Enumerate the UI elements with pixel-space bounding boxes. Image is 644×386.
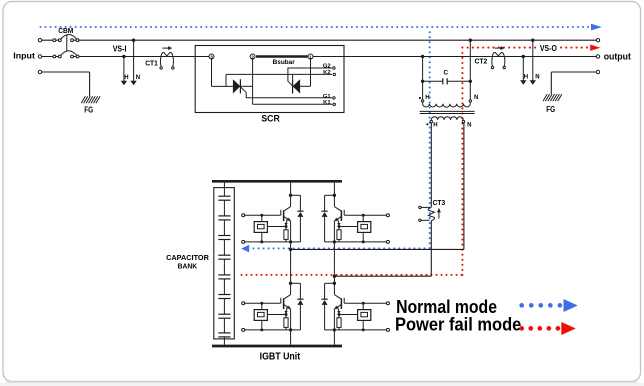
transformer primary N terminal xyxy=(469,100,471,102)
wire IGBT Q2 diode branch bottom xyxy=(324,217,326,242)
terminal K2 xyxy=(323,70,335,76)
wire K1 line xyxy=(253,103,333,105)
transformer T1 primary winding xyxy=(423,102,471,107)
label FG right xyxy=(546,105,555,114)
transformer secondary H terminal xyxy=(430,120,432,122)
terminal K1 xyxy=(323,100,335,106)
svg-text:IGBT Unit: IGBT Unit xyxy=(260,351,301,362)
label output xyxy=(604,52,631,62)
wire IGBT Q1 gate xyxy=(245,214,281,216)
wire normal-mode blue dotted top run xyxy=(39,26,589,28)
node L1 N-tap xyxy=(132,39,135,42)
wire power-fail red dotted top run xyxy=(461,47,588,49)
node IGBT Q1 emitter sense xyxy=(285,225,288,228)
node IGBT Q3 gate tap xyxy=(260,302,263,305)
wire IGBT Q4 driver to emitter sense xyxy=(339,314,358,316)
wire IGBT Q2 diode branch top xyxy=(325,195,335,211)
label H secondary xyxy=(433,122,437,128)
wire primary H drop xyxy=(422,57,424,100)
thyristor T1 cathode bar xyxy=(239,79,241,93)
input terminal L1 xyxy=(38,39,41,42)
transistor IGBT Q1 emitter diagonal xyxy=(284,216,291,221)
thyristor T2 gate lead xyxy=(288,68,332,86)
current transformer CT1 arrow xyxy=(162,46,172,50)
wire IGBT Q3 diode branch bottom xyxy=(299,305,301,330)
terminal IGBT Q4 gate xyxy=(386,302,389,305)
transistor IGBT Q2 emitter diagonal xyxy=(335,216,342,221)
wire IGBT Q4 leg collector xyxy=(333,271,335,295)
terminal IGBT Q3 emitter xyxy=(242,328,245,331)
label H out xyxy=(524,74,528,80)
legend normal-mode dots xyxy=(519,303,562,308)
label Power fail mode xyxy=(395,315,521,335)
label CBM xyxy=(58,26,73,35)
arrow H measurement VS-I xyxy=(121,57,127,86)
transistor IGBT Q3 gate bar xyxy=(280,298,282,303)
thyristor T1 triangle xyxy=(233,79,241,93)
wire IGBT Q3 gate xyxy=(245,302,281,304)
arrow N measurement out xyxy=(530,40,536,85)
transistor IGBT Q4 kelvin emitter arrow xyxy=(337,307,340,315)
transistor IGBT Q2 kelvin emitter arrow xyxy=(337,219,340,227)
svg-text:CT1: CT1 xyxy=(145,58,158,67)
node IGBT Q1 emitter wire taps xyxy=(260,240,292,243)
arrow normal-mode left into capacitor bank xyxy=(241,245,249,253)
svg-text:output: output xyxy=(604,52,631,62)
wire IGBT Q4 resistor leads xyxy=(338,315,340,330)
wire leg1 bottom xyxy=(290,330,292,345)
terminal IGBT Q2 gate xyxy=(386,214,389,217)
svg-text:N: N xyxy=(535,74,539,80)
transistor IGBT Q4 emitter diagonal xyxy=(335,304,342,309)
node L2 H-tap xyxy=(122,55,125,58)
transformer primary polarity dot xyxy=(419,97,421,99)
wire leg1 AC output to secondary N xyxy=(291,123,464,250)
driver box IGBT Q4 xyxy=(358,310,371,321)
driver box IGBT Q3 xyxy=(254,310,267,321)
svg-text:K1: K1 xyxy=(323,100,331,106)
wire L2 SCR to output xyxy=(313,56,596,58)
wire anode to K2 riser xyxy=(225,74,227,86)
label CT3 xyxy=(433,198,446,207)
label N VS-I xyxy=(136,75,140,81)
svg-text:3: 3 xyxy=(210,55,213,60)
transistor IGBT Q2 body bar xyxy=(340,210,342,221)
svg-text:N: N xyxy=(474,95,478,101)
diode IGBT Q3 triangle xyxy=(297,300,303,305)
transistor IGBT Q4 collector diagonal xyxy=(334,295,341,300)
transistor IGBT Q2 collector diagonal xyxy=(334,207,341,212)
resistor IGBT Q4 emitter xyxy=(337,318,341,328)
label VS-O xyxy=(540,43,557,53)
input terminal L2 xyxy=(38,55,41,58)
current transformer CT2 terminals xyxy=(491,66,505,68)
driver box IGBT Q1 xyxy=(254,222,267,233)
node L2 primary-H tap xyxy=(421,55,424,58)
SCR module box xyxy=(195,46,344,113)
terminal IGBT Q4 emitter xyxy=(386,328,389,331)
wire IGBT Q3 driver bottom drop xyxy=(261,320,263,330)
current transformer CT1 winding xyxy=(161,52,173,56)
wire terminal2 riser xyxy=(252,59,254,104)
breaker CBM pole 2 arc xyxy=(60,51,78,57)
svg-text:Input: Input xyxy=(13,51,35,61)
wire T1 cathode to terminal2 xyxy=(240,85,252,87)
bus bar positive xyxy=(212,180,342,183)
transformer secondary polarity dot xyxy=(426,123,428,125)
node C left xyxy=(421,80,424,83)
transistor IGBT Q1 collector diagonal xyxy=(284,207,291,212)
svg-text:H: H xyxy=(524,74,528,80)
wire L1 input to breaker xyxy=(42,39,59,41)
wire normal-mode blue dotted bottom run xyxy=(252,247,430,249)
wire power-fail red dotted bottom run xyxy=(240,274,462,276)
svg-text:K2: K2 xyxy=(323,70,330,76)
label FG left xyxy=(84,105,93,114)
ground FG left xyxy=(81,96,100,103)
driver box IGBT Q2 xyxy=(358,222,371,233)
wire capacitor bank top feed xyxy=(223,183,225,197)
current transformer CT2 winding xyxy=(492,52,504,56)
label CT1 xyxy=(145,58,158,67)
terminal G2 xyxy=(323,64,335,70)
svg-text:H: H xyxy=(124,75,128,81)
svg-text:BANK: BANK xyxy=(178,262,198,271)
capacitor C plates xyxy=(443,78,447,84)
wire IGBT Q4 emitter return xyxy=(325,329,387,331)
node IGBT Q2 gate tap xyxy=(362,214,365,217)
legend power-fail arrow xyxy=(561,322,576,335)
arrow H measurement out xyxy=(520,57,526,85)
label Input xyxy=(13,51,35,61)
thyristor T2 triangle xyxy=(293,79,301,93)
wire IGBT Q3 resistor leads xyxy=(285,315,287,330)
terminal IGBT Q2 emitter xyxy=(386,240,389,243)
terminal 2 xyxy=(250,54,255,60)
capacitor bank series capacitors xyxy=(218,196,230,337)
svg-text:FG: FG xyxy=(84,105,93,114)
wire primary N drop xyxy=(469,40,471,100)
wire IGBT Q2 gate xyxy=(344,214,386,216)
diode IGBT Q1 cathode bar xyxy=(297,210,303,212)
busbar Bsubar link xyxy=(256,55,308,58)
svg-text:VS-I: VS-I xyxy=(113,43,127,53)
label VS-I xyxy=(113,43,127,53)
ground FG right xyxy=(543,94,562,101)
breaker CBM pole 2 contacts xyxy=(53,55,79,58)
svg-text:G1: G1 xyxy=(323,94,332,100)
transformer core xyxy=(420,111,475,113)
terminal 1 xyxy=(308,54,313,60)
label H primary xyxy=(425,95,429,101)
wire T2 anode to terminal1 xyxy=(300,59,310,86)
wire leg2 bottom xyxy=(333,330,335,345)
thyristor T2 cathode bar xyxy=(292,79,294,93)
wire IGBT Q3 diode branch top xyxy=(291,283,301,299)
label Bsubar xyxy=(273,59,296,66)
wire IGBT Q1 driver bottom drop xyxy=(261,232,263,242)
node IGBT Q1 gate tap xyxy=(260,214,263,217)
svg-text:CT2: CT2 xyxy=(475,57,488,66)
node IGBT Q3 collector split xyxy=(289,282,292,285)
label C xyxy=(443,69,448,76)
wire IGBT Q3 driver to emitter sense xyxy=(267,314,286,316)
svg-text:2: 2 xyxy=(251,55,254,60)
bus bar negative xyxy=(212,345,342,348)
wire terminal3 riser xyxy=(211,59,213,86)
current transformer CT1 terminals xyxy=(160,67,174,69)
wire FG output lead xyxy=(551,72,596,94)
svg-text:CT3: CT3 xyxy=(433,198,446,207)
transformer primary H terminal xyxy=(421,100,423,102)
input terminal FG xyxy=(38,70,41,73)
node IGBT Q3 emitter wire taps xyxy=(260,328,292,331)
label CAPACITOR BANK xyxy=(166,253,210,270)
diode IGBT Q1 triangle xyxy=(297,212,303,217)
svg-text:SCR: SCR xyxy=(261,114,280,125)
wire power-fail red dotted vertical xyxy=(461,52,463,276)
wire IGBT Q3 driver drop xyxy=(261,303,263,309)
resistor IGBT Q3 emitter xyxy=(284,318,288,328)
node L1 N-tap out xyxy=(531,39,534,42)
terminal IGBT Q3 gate xyxy=(242,302,245,305)
svg-text:N: N xyxy=(136,75,140,81)
wire capacitor bank bottom feed xyxy=(223,337,225,345)
diode IGBT Q2 triangle xyxy=(322,212,328,217)
node IGBT Q2 collector split xyxy=(333,194,336,197)
current transformer CT3 terminals xyxy=(419,206,421,221)
node IGBT Q2 emitter wire taps xyxy=(333,240,365,243)
current transformer CT3 leads xyxy=(421,207,429,220)
wire leg2 mid xyxy=(333,242,335,271)
wire IGBT Q1 driver drop xyxy=(261,215,263,221)
svg-text:FG: FG xyxy=(546,105,555,114)
label H VS-I xyxy=(124,75,128,81)
wire IGBT Q2 resistor leads xyxy=(338,227,340,242)
wire IGBT Q1 leg collector xyxy=(290,183,292,207)
transformer T1 secondary winding xyxy=(431,117,463,121)
transistor IGBT Q3 collector diagonal xyxy=(284,295,291,300)
legend power-fail dots xyxy=(519,326,560,331)
current transformer CT3 arrow xyxy=(437,208,441,219)
diode IGBT Q2 cathode bar xyxy=(321,210,327,212)
node leg1 AC tap xyxy=(289,248,292,251)
transistor IGBT Q2 gate bar xyxy=(343,210,345,215)
svg-text:CBM: CBM xyxy=(58,26,73,35)
wire IGBT Q4 emitter leg xyxy=(333,309,335,330)
wire thyristor1 anode xyxy=(212,85,233,87)
node L2 H-tap out xyxy=(522,55,525,58)
wire IGBT Q3 emitter return xyxy=(245,329,301,331)
wire IGBT Q2 leg collector xyxy=(333,183,335,207)
breaker CBM pole 1 arc xyxy=(60,35,78,41)
svg-text:1: 1 xyxy=(309,55,312,60)
output terminal L1 xyxy=(596,39,599,42)
arrow N measurement VS-I xyxy=(130,40,136,85)
node IGBT Q1 collector split xyxy=(289,194,292,197)
wire IGBT Q1 diode branch top xyxy=(291,195,301,211)
wire K2 line xyxy=(226,73,332,75)
capacitor bank enclosure xyxy=(214,188,235,339)
label SCR xyxy=(261,114,280,125)
svg-text:Bsubar: Bsubar xyxy=(273,59,296,66)
node IGBT Q4 gate tap xyxy=(362,302,365,305)
wire IGBT Q1 driver to emitter sense xyxy=(267,226,286,228)
arrow power-fail right xyxy=(590,45,600,51)
wire IGBT Q3 emitter leg xyxy=(290,309,292,330)
wire IGBT Q3 leg collector xyxy=(290,271,292,295)
breaker CBM pole 1 contacts xyxy=(53,39,79,42)
transistor IGBT Q4 body bar xyxy=(340,298,342,309)
transistor IGBT Q1 gate bar xyxy=(280,210,282,215)
wire L2 input to breaker xyxy=(42,56,59,58)
current transformer CT2 leads xyxy=(492,57,505,67)
node IGBT Q2 emitter sense xyxy=(338,225,341,228)
svg-text:VS-O: VS-O xyxy=(540,43,557,53)
terminal G1 xyxy=(323,94,335,100)
transistor IGBT Q3 kelvin emitter arrow xyxy=(285,307,288,315)
transistor IGBT Q3 emitter diagonal xyxy=(284,304,291,309)
resistor IGBT Q1 emitter xyxy=(284,230,288,240)
wire CT3 to leg2 AC xyxy=(334,221,431,277)
svg-text:H: H xyxy=(433,122,437,128)
wire IGBT Q4 diode branch top xyxy=(325,283,335,299)
transistor IGBT Q4 gate bar xyxy=(343,298,345,303)
svg-text:N: N xyxy=(467,122,471,128)
arrow normal-mode right xyxy=(591,24,602,31)
output terminal FG xyxy=(596,70,599,73)
label N out xyxy=(535,74,539,80)
wire IGBT Q1 resistor leads xyxy=(285,227,287,242)
wire IGBT Q4 gate xyxy=(344,302,386,304)
label Normal mode xyxy=(396,297,497,317)
current transformer CT3 winding xyxy=(428,207,434,220)
transistor IGBT Q1 body bar xyxy=(283,210,285,221)
svg-text:H: H xyxy=(425,95,429,101)
thyristor T1 gate lead xyxy=(240,87,332,98)
output terminal L2 xyxy=(596,55,599,58)
legend normal-mode arrow xyxy=(564,299,578,312)
resistor IGBT Q2 emitter xyxy=(337,230,341,240)
wire IGBT Q2 emitter return xyxy=(325,241,387,243)
wire IGBT Q2 driver to emitter sense xyxy=(339,226,358,228)
label CT2 xyxy=(475,57,488,66)
node IGBT Q4 collector split xyxy=(333,282,336,285)
wire IGBT Q1 emitter leg xyxy=(290,221,292,242)
label VS-O backing xyxy=(538,44,559,52)
label N primary xyxy=(474,95,478,101)
terminal IGBT Q1 emitter xyxy=(242,240,245,243)
node C right xyxy=(469,80,472,83)
diode IGBT Q3 cathode bar xyxy=(297,298,303,300)
label IGBT Unit xyxy=(260,351,301,362)
wire IGBT Q4 diode branch bottom xyxy=(324,305,326,330)
svg-text:G2: G2 xyxy=(323,64,331,70)
terminal IGBT Q1 gate xyxy=(242,214,245,217)
svg-text:C: C xyxy=(443,69,448,76)
current transformer CT2 arrow xyxy=(495,46,505,50)
wire L1 breaker to end xyxy=(73,39,596,41)
node IGBT Q4 emitter sense xyxy=(338,313,341,316)
wire IGBT Q2 driver drop xyxy=(362,215,364,221)
node IGBT Q3 emitter sense xyxy=(285,313,288,316)
wire FG input lead xyxy=(42,72,90,96)
wire L2 breaker to SCR xyxy=(73,56,209,58)
wire normal-mode blue dotted vertical drop xyxy=(429,31,431,249)
svg-text:Power fail mode: Power fail mode xyxy=(395,315,521,335)
capacitor C leads xyxy=(423,80,471,82)
node leg2 AC tap xyxy=(333,275,336,278)
transistor IGBT Q1 kelvin emitter arrow xyxy=(285,219,288,227)
node IGBT Q4 emitter wire taps xyxy=(333,328,365,331)
wire IGBT Q2 emitter leg xyxy=(333,221,335,242)
wire IGBT Q4 driver drop xyxy=(362,303,364,309)
diode IGBT Q4 cathode bar xyxy=(321,298,327,300)
current transformer CT1 leads xyxy=(160,57,173,67)
transformer secondary N terminal xyxy=(462,120,464,122)
wire IGBT Q4 driver bottom drop xyxy=(362,320,364,330)
wire IGBT Q1 diode branch bottom xyxy=(299,217,301,242)
breaker CBM mechanical link xyxy=(66,35,68,51)
wire leg1 mid xyxy=(290,242,292,271)
wire IGBT Q2 driver bottom drop xyxy=(362,232,364,242)
label N secondary xyxy=(467,122,471,128)
wire IGBT Q1 emitter return xyxy=(245,241,301,243)
wire T2 cathode up to K2 line xyxy=(292,74,294,79)
diode IGBT Q4 triangle xyxy=(322,300,328,305)
node L1 primary-N tap xyxy=(469,39,472,42)
terminal 3 xyxy=(209,54,214,60)
transistor IGBT Q3 body bar xyxy=(283,298,285,309)
wire secondary H down to CT3 xyxy=(430,123,432,208)
